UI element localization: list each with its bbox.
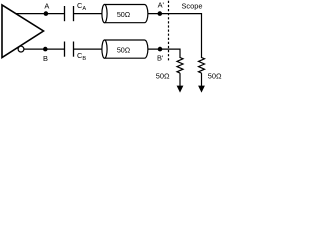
svg-text:50Ω: 50Ω [156,72,170,81]
svg-text:B': B' [157,54,164,63]
wire: coax A to node A' to scope corner [146,14,202,58]
wire: left resistor to arrow [179,73,181,86]
wire: CA to coax A [74,13,104,15]
svg-text:B: B [43,54,48,63]
node B junction dot [43,47,48,52]
svg-text:50Ω: 50Ω [117,10,131,19]
wire A: triangle output to capacitor CA [15,13,65,15]
node A junction dot [44,11,49,16]
wire: coax B to node B' to left resistor [146,49,180,58]
capacitor CA [64,6,66,21]
inversion bubble on B output [18,46,24,52]
svg-text:A': A' [158,1,165,10]
capacitor CB [64,42,66,57]
svg-text:Scope: Scope [182,1,203,10]
wire: CB to coax B [74,48,104,50]
wire B: bubble to capacitor CB [23,48,65,50]
coax transmission line A (left end ellipse) [102,5,107,23]
wire: right resistor to arrow [201,73,203,86]
resistor right 50ohm (A' termination) zigzag [199,58,205,74]
node B' dot [158,47,163,52]
resistor left 50ohm (B' termination) zigzag [177,58,183,74]
node A' dot [158,11,163,16]
scope boundary dashed line [168,1,170,61]
ground arrow right [198,86,205,93]
coax transmission line B (left end ellipse) [102,40,107,58]
coax transmission line A (body) [105,5,148,23]
svg-text:A: A [44,2,49,11]
op-amp driver (triangle) [2,5,44,58]
svg-text:50Ω: 50Ω [117,46,131,55]
ground arrow left [177,86,184,93]
coax transmission line B (body) [105,40,148,58]
svg-text:50Ω: 50Ω [208,72,222,81]
